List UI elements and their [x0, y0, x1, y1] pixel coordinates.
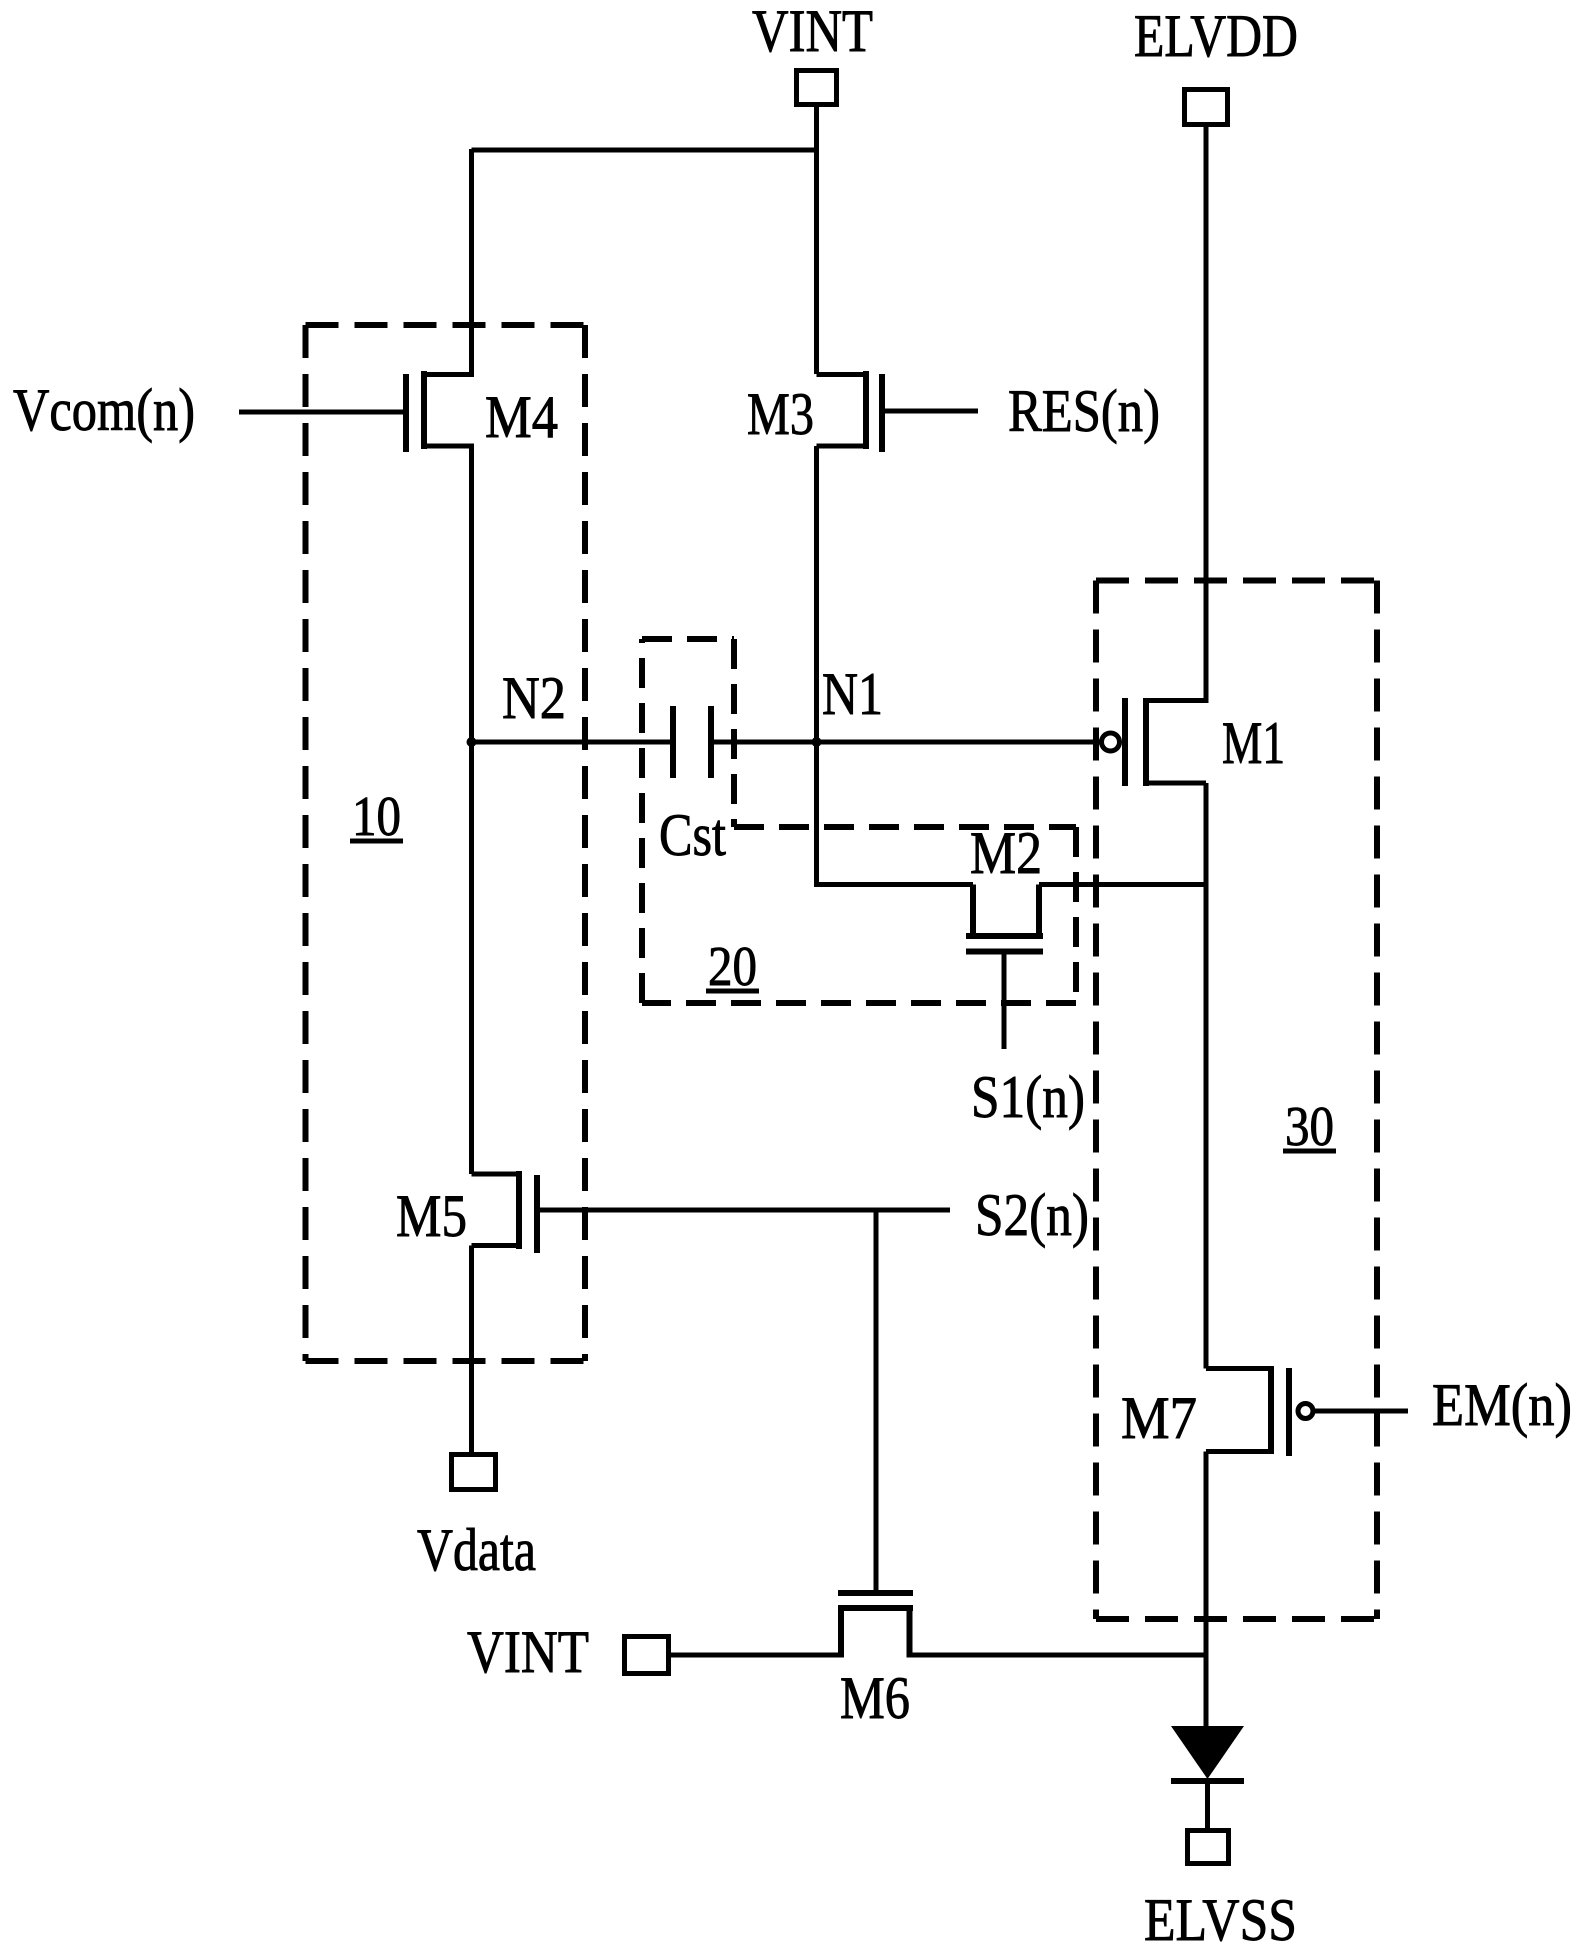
svg-text:VINT: VINT	[752, 0, 873, 64]
transistor M2	[966, 885, 1043, 1050]
svg-text:S2(n): S2(n)	[975, 1182, 1089, 1248]
terminal VINT bottom	[625, 1637, 669, 1674]
wire M7 source down to OLED	[1204, 1452, 1209, 1728]
wire S2 branch down to M6 gate	[874, 1210, 879, 1593]
svg-text:Vcom(n): Vcom(n)	[13, 377, 195, 443]
terminal ELVDD	[1185, 90, 1228, 125]
transistor M6	[838, 1593, 913, 1658]
transistor M1	[1102, 698, 1207, 786]
svg-text:EM(n): EM(n)	[1432, 1372, 1572, 1438]
dashed block 10	[306, 325, 586, 1361]
wire M1 source rail down to M7	[1204, 783, 1209, 1369]
wire M5 source down to Vdata	[469, 1246, 474, 1453]
terminal VINT top	[797, 71, 837, 105]
svg-text:N1: N1	[822, 661, 883, 727]
wire ELVDD rail to M1 drain	[1204, 127, 1209, 703]
svg-text:ELVSS: ELVSS	[1144, 1887, 1297, 1953]
svg-text:VINT: VINT	[467, 1619, 589, 1685]
svg-text:S1(n): S1(n)	[971, 1064, 1085, 1130]
svg-text:M6: M6	[840, 1665, 910, 1731]
wire M4 source rail down to M5 (through node N2)	[469, 446, 474, 1174]
svg-text:M2: M2	[970, 820, 1042, 886]
wire VINT to M6	[671, 1653, 841, 1658]
wire top horizontal VINT to left branch	[472, 148, 817, 153]
svg-text:M4: M4	[485, 384, 558, 450]
wire M3 source rail down to M2 branch	[817, 446, 974, 885]
dashed block 20 with Cst compartment	[642, 639, 1076, 1003]
terminal Vdata	[452, 1455, 496, 1490]
capacitor Cst	[472, 706, 1102, 778]
svg-text:M7: M7	[1121, 1385, 1197, 1451]
transistor M5	[472, 1171, 951, 1253]
diode OLED	[1171, 1726, 1244, 1828]
transistor M4	[239, 371, 474, 452]
svg-text:ELVDD: ELVDD	[1134, 3, 1298, 69]
wire M6 to OLED node	[910, 1653, 1207, 1658]
node N2 junction dot	[467, 737, 477, 747]
wire M2 drain to ELVDD rail	[1039, 882, 1206, 887]
svg-text:Cst: Cst	[659, 802, 726, 868]
dashed block 30	[1096, 581, 1377, 1620]
transistor M7	[1206, 1366, 1408, 1456]
wire left vertical down to M4	[469, 149, 474, 377]
wire VINT rail down to M3	[814, 107, 819, 374]
svg-text:M1: M1	[1222, 710, 1285, 776]
svg-text:N2: N2	[502, 665, 566, 731]
terminal ELVSS	[1188, 1831, 1229, 1864]
svg-text:RES(n): RES(n)	[1008, 378, 1160, 444]
node N1 junction dot	[812, 737, 822, 747]
transistor M3	[817, 371, 979, 452]
svg-text:Vdata: Vdata	[417, 1517, 536, 1583]
svg-text:M5: M5	[396, 1183, 467, 1249]
svg-text:M3: M3	[747, 381, 814, 447]
